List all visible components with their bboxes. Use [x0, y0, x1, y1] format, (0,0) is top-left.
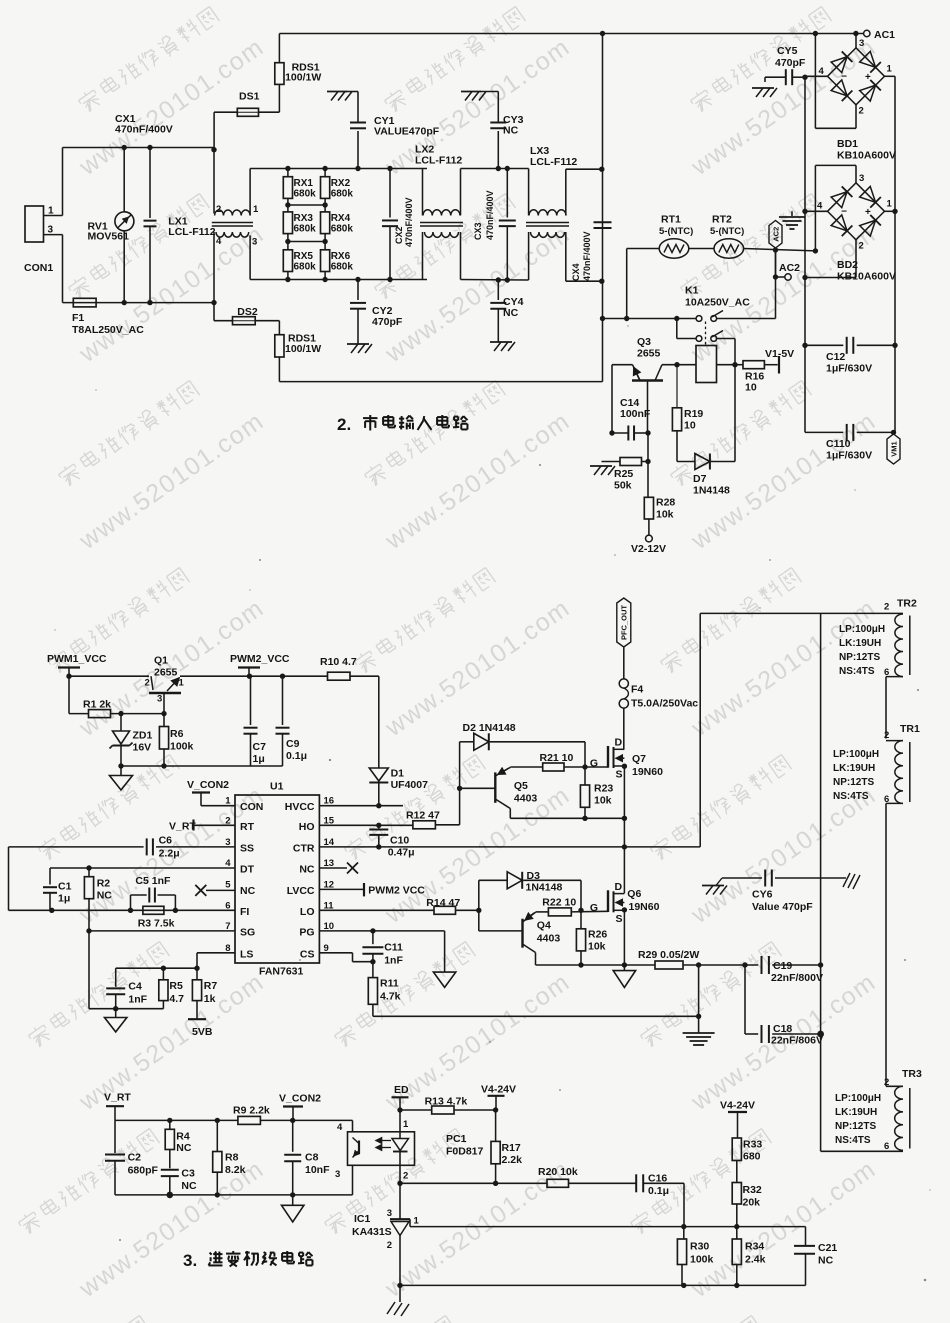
svg-text:PC1: PC1 — [446, 1133, 467, 1145]
svg-text:NC: NC — [240, 885, 256, 897]
svg-text:5: 5 — [225, 879, 231, 890]
svg-text:R1 2k: R1 2k — [83, 699, 111, 711]
svg-text:680pF: 680pF — [128, 1165, 159, 1177]
svg-text:680k: 680k — [294, 224, 317, 235]
svg-text:NC: NC — [299, 864, 315, 876]
svg-text:680k: 680k — [331, 189, 354, 200]
svg-text:V_CON2: V_CON2 — [187, 779, 229, 791]
svg-text:−: − — [841, 206, 847, 217]
svg-text:NC: NC — [503, 307, 519, 319]
svg-text:R19: R19 — [684, 408, 703, 420]
svg-text:ED: ED — [394, 1084, 409, 1096]
svg-text:3: 3 — [157, 694, 162, 705]
svg-text:AC1: AC1 — [874, 29, 895, 41]
svg-text:10k: 10k — [588, 941, 606, 953]
svg-text:R2: R2 — [97, 878, 111, 890]
svg-text:10k: 10k — [594, 795, 612, 807]
svg-text:VALUE470pF: VALUE470pF — [374, 126, 440, 138]
svg-text:Q3: Q3 — [637, 336, 651, 348]
svg-text:100k: 100k — [690, 1254, 714, 1266]
svg-text:470pF: 470pF — [775, 57, 806, 69]
svg-text:LVCC: LVCC — [287, 885, 315, 897]
svg-text:CX2: CX2 — [394, 226, 404, 244]
svg-text:RX2: RX2 — [331, 178, 351, 189]
svg-text:470nF/400V: 470nF/400V — [485, 190, 495, 240]
svg-text:BD2: BD2 — [837, 259, 858, 271]
svg-text:+: + — [865, 72, 871, 83]
svg-text:R4: R4 — [176, 1131, 190, 1143]
svg-text:CTR: CTR — [293, 842, 315, 854]
svg-text:470pF: 470pF — [372, 316, 403, 328]
svg-text:V4-24V: V4-24V — [720, 1100, 755, 1112]
svg-text:NS:4TS: NS:4TS — [835, 1135, 871, 1146]
svg-text:NS:4TS: NS:4TS — [839, 666, 875, 677]
svg-text:CY6: CY6 — [752, 889, 773, 901]
svg-text:50k: 50k — [614, 480, 632, 492]
svg-text:HO: HO — [299, 821, 315, 833]
svg-text:R6: R6 — [170, 728, 184, 740]
svg-text:R28: R28 — [656, 497, 675, 509]
svg-text:D1: D1 — [391, 768, 405, 780]
svg-text:C10: C10 — [390, 835, 409, 847]
svg-text:R26: R26 — [588, 929, 607, 941]
svg-text:D7: D7 — [693, 473, 707, 485]
svg-text:4.7k: 4.7k — [380, 991, 401, 1003]
svg-text:R34: R34 — [745, 1241, 764, 1253]
svg-text:C19: C19 — [773, 960, 792, 972]
svg-text:RX5: RX5 — [294, 251, 314, 262]
svg-text:10: 10 — [745, 382, 757, 394]
svg-text:C12: C12 — [826, 351, 845, 363]
svg-text:TR1: TR1 — [900, 723, 920, 735]
svg-text:NC: NC — [181, 1180, 197, 1192]
svg-text:2655: 2655 — [637, 348, 661, 360]
svg-text:R32: R32 — [743, 1184, 762, 1196]
svg-text:−: − — [841, 71, 847, 82]
svg-text:R20 10k: R20 10k — [538, 1166, 578, 1178]
svg-text:K1: K1 — [685, 285, 699, 297]
svg-text:S: S — [616, 913, 623, 925]
svg-text:C2: C2 — [128, 1152, 142, 1164]
svg-text:S: S — [616, 769, 623, 781]
svg-text:4403: 4403 — [514, 793, 538, 805]
svg-text:6: 6 — [884, 1141, 889, 1152]
svg-text:NP:12TS: NP:12TS — [835, 1121, 876, 1132]
svg-text:+: + — [865, 207, 871, 218]
svg-text:LK:19UH: LK:19UH — [839, 638, 881, 649]
svg-text:TR3: TR3 — [902, 1068, 922, 1080]
svg-text:4: 4 — [817, 201, 823, 212]
svg-text:4: 4 — [216, 236, 222, 247]
svg-text:PFC_OUT: PFC_OUT — [620, 605, 629, 640]
svg-text:VM1: VM1 — [889, 441, 898, 456]
svg-text:FI: FI — [240, 906, 249, 918]
svg-text:2: 2 — [884, 1077, 889, 1088]
svg-text:NC: NC — [176, 1142, 192, 1154]
svg-text:4403: 4403 — [537, 933, 561, 945]
svg-text:R29 0.05/2W: R29 0.05/2W — [638, 949, 699, 961]
svg-text:CX4: CX4 — [571, 263, 581, 281]
svg-text:DS1: DS1 — [239, 91, 260, 103]
svg-text:LO: LO — [300, 906, 315, 918]
svg-text:1μ: 1μ — [58, 893, 70, 905]
svg-text:MOV561: MOV561 — [88, 231, 130, 243]
svg-text:Q6: Q6 — [627, 888, 641, 900]
svg-text:R25: R25 — [614, 468, 633, 480]
svg-text:C8: C8 — [305, 1152, 319, 1164]
svg-text:4: 4 — [337, 1122, 343, 1133]
svg-text:TR2: TR2 — [897, 598, 917, 610]
svg-text:C18: C18 — [773, 1023, 792, 1035]
svg-text:680k: 680k — [294, 262, 317, 273]
svg-text:V_RT: V_RT — [104, 1092, 131, 1104]
svg-text:KB10A600V: KB10A600V — [837, 150, 896, 162]
svg-text:DS2: DS2 — [237, 306, 258, 318]
svg-text:F1: F1 — [72, 312, 84, 324]
svg-text:V2-12V: V2-12V — [631, 543, 666, 555]
svg-text:100/1W: 100/1W — [285, 72, 321, 84]
svg-text:G: G — [590, 902, 598, 914]
svg-text:1N4148: 1N4148 — [526, 882, 563, 894]
svg-text:8.2k: 8.2k — [225, 1164, 246, 1176]
svg-text:2: 2 — [859, 241, 864, 252]
svg-text:10k: 10k — [656, 509, 674, 521]
svg-text:T5.0A/250Vac: T5.0A/250Vac — [631, 698, 698, 710]
svg-text:2: 2 — [859, 106, 864, 117]
svg-text:Q1: Q1 — [154, 655, 168, 667]
svg-text:R14 47: R14 47 — [426, 897, 460, 909]
svg-text:LCL-F112: LCL-F112 — [168, 226, 215, 238]
svg-text:470nF/400V: 470nF/400V — [582, 231, 592, 281]
svg-text:C11: C11 — [384, 942, 403, 954]
svg-text:BD1: BD1 — [837, 138, 858, 150]
svg-text:5-(NTC): 5-(NTC) — [710, 226, 744, 237]
svg-text:1: 1 — [414, 1216, 420, 1227]
svg-text:1μ: 1μ — [253, 753, 265, 765]
svg-text:DT: DT — [240, 864, 255, 876]
svg-text:KA431S: KA431S — [352, 1226, 392, 1238]
svg-text:6: 6 — [884, 667, 889, 678]
svg-text:C21: C21 — [818, 1242, 837, 1254]
svg-text:2.4k: 2.4k — [745, 1254, 766, 1266]
svg-text:LK:19UH: LK:19UH — [833, 763, 875, 774]
svg-text:PWM2_VCC: PWM2_VCC — [230, 653, 290, 665]
svg-text:R33: R33 — [743, 1139, 762, 1151]
svg-text:R30: R30 — [690, 1241, 709, 1253]
svg-text:C110: C110 — [826, 438, 851, 450]
svg-text:V_CON2: V_CON2 — [279, 1093, 321, 1105]
svg-text:6: 6 — [884, 794, 889, 805]
svg-text:LK:19UH: LK:19UH — [835, 1107, 877, 1118]
svg-text:20k: 20k — [743, 1197, 761, 1209]
svg-text:R7: R7 — [204, 980, 218, 992]
svg-text:CS: CS — [300, 948, 315, 960]
svg-text:NC: NC — [818, 1255, 834, 1267]
svg-text:PWM1_VCC: PWM1_VCC — [47, 653, 107, 665]
svg-text:KB10A600V: KB10A600V — [837, 271, 896, 283]
svg-text:RT1: RT1 — [661, 214, 681, 226]
svg-text:3.: 3. — [183, 1251, 197, 1270]
svg-text:LS: LS — [240, 948, 253, 960]
svg-text:5VB: 5VB — [192, 1026, 213, 1038]
svg-text:T8AL250V_AC: T8AL250V_AC — [72, 324, 144, 336]
svg-text:2.2k: 2.2k — [502, 1154, 523, 1166]
svg-text:19N60: 19N60 — [629, 901, 660, 913]
svg-text:C4: C4 — [128, 981, 142, 993]
svg-text:ZD1: ZD1 — [133, 730, 153, 742]
svg-text:D: D — [615, 881, 623, 893]
svg-text:C7: C7 — [253, 741, 267, 753]
svg-text:Q5: Q5 — [514, 780, 528, 792]
svg-text:680k: 680k — [294, 189, 317, 200]
svg-text:U1: U1 — [270, 781, 284, 793]
svg-text:R11: R11 — [380, 978, 399, 990]
svg-text:SG: SG — [240, 926, 255, 938]
svg-text:Value 470pF: Value 470pF — [752, 901, 813, 913]
svg-text:C16: C16 — [648, 1173, 667, 1185]
svg-text:CY5: CY5 — [777, 45, 798, 57]
svg-text:3: 3 — [387, 1208, 392, 1219]
svg-text:2.2μ: 2.2μ — [159, 848, 180, 860]
svg-text:LCL-F112: LCL-F112 — [530, 156, 577, 168]
svg-text:1k: 1k — [204, 993, 216, 1005]
svg-text:2655: 2655 — [154, 667, 178, 679]
svg-text:1μF/630V: 1μF/630V — [826, 450, 872, 462]
svg-text:100/1W: 100/1W — [285, 343, 321, 355]
svg-text:1μF/630V: 1μF/630V — [826, 363, 872, 375]
svg-text:1N4148: 1N4148 — [693, 485, 730, 497]
svg-text:0.47μ: 0.47μ — [388, 847, 415, 859]
svg-text:NC: NC — [97, 890, 113, 902]
svg-text:C5 1nF: C5 1nF — [135, 875, 171, 887]
svg-text:10A250V_AC: 10A250V_AC — [685, 297, 750, 309]
svg-text:R22 10: R22 10 — [542, 897, 576, 909]
svg-text:2.: 2. — [337, 415, 351, 434]
svg-text:NP:12TS: NP:12TS — [833, 777, 874, 788]
svg-text:R23: R23 — [594, 783, 613, 795]
svg-text:UF4007: UF4007 — [391, 779, 429, 791]
svg-text:D3: D3 — [527, 870, 541, 882]
svg-text:D: D — [615, 737, 623, 749]
svg-text:HVCC: HVCC — [285, 801, 315, 813]
svg-text:1nF: 1nF — [128, 994, 147, 1006]
svg-text:V_RT: V_RT — [169, 821, 196, 833]
svg-text:C9: C9 — [286, 738, 300, 750]
svg-text:1nF: 1nF — [384, 955, 403, 967]
svg-text:RX6: RX6 — [331, 251, 351, 262]
svg-text:3: 3 — [335, 1169, 340, 1180]
svg-text:0.1μ: 0.1μ — [648, 1185, 669, 1197]
svg-text:R13 4.7k: R13 4.7k — [425, 1096, 468, 1108]
svg-text:NS:4TS: NS:4TS — [833, 791, 869, 802]
svg-text:R5: R5 — [169, 980, 183, 992]
svg-text:CX3: CX3 — [473, 222, 483, 240]
svg-text:RX1: RX1 — [294, 178, 314, 189]
svg-text:SS: SS — [240, 842, 254, 854]
svg-text:4.7: 4.7 — [169, 993, 184, 1005]
svg-text:D2 1N4148: D2 1N4148 — [463, 722, 516, 734]
svg-text:C3: C3 — [181, 1168, 195, 1180]
svg-text:3: 3 — [859, 38, 864, 49]
svg-text:5-(NTC): 5-(NTC) — [659, 226, 693, 237]
svg-text:LP:100μH: LP:100μH — [833, 749, 879, 760]
svg-text:470nF/400V: 470nF/400V — [404, 197, 414, 247]
svg-text:22nF/806V: 22nF/806V — [771, 1035, 823, 1047]
svg-text:2: 2 — [884, 730, 889, 741]
svg-text:1: 1 — [887, 199, 893, 210]
svg-text:V1-5V: V1-5V — [765, 348, 794, 360]
svg-text:NP:12TS: NP:12TS — [839, 652, 880, 663]
svg-text:3: 3 — [252, 237, 257, 248]
svg-text:RX3: RX3 — [294, 213, 314, 224]
svg-text:0.1μ: 0.1μ — [286, 750, 307, 762]
svg-text:680: 680 — [743, 1151, 761, 1163]
svg-text:NC: NC — [503, 125, 519, 137]
svg-text:2: 2 — [387, 1240, 392, 1251]
svg-text:RT2: RT2 — [712, 214, 732, 226]
svg-text:10nF: 10nF — [305, 1164, 330, 1176]
svg-text:R3 7.5k: R3 7.5k — [138, 918, 175, 930]
svg-text:100k: 100k — [170, 741, 194, 753]
svg-text:F4: F4 — [631, 684, 643, 696]
svg-text:CON: CON — [240, 801, 263, 813]
svg-text:2: 2 — [403, 1171, 408, 1182]
svg-text:R21 10: R21 10 — [540, 752, 574, 764]
svg-text:19N60: 19N60 — [632, 766, 663, 778]
svg-text:16V: 16V — [133, 742, 152, 754]
svg-text:R10 4.7: R10 4.7 — [320, 656, 357, 668]
svg-text:RX4: RX4 — [331, 213, 351, 224]
svg-text:LP:100μH: LP:100μH — [839, 624, 885, 635]
svg-text:100nF: 100nF — [620, 408, 651, 420]
svg-text:F0D817: F0D817 — [446, 1146, 484, 1158]
svg-text:680k: 680k — [331, 262, 354, 273]
svg-text:R8: R8 — [225, 1152, 239, 1164]
svg-text:LCL-F112: LCL-F112 — [415, 155, 462, 167]
svg-text:CON1: CON1 — [24, 262, 53, 274]
svg-text:22nF/800V: 22nF/800V — [771, 972, 823, 984]
svg-text:680k: 680k — [331, 224, 354, 235]
svg-text:IC1: IC1 — [354, 1213, 371, 1225]
svg-text:1: 1 — [403, 1119, 409, 1130]
svg-text:2: 2 — [216, 204, 221, 215]
svg-text:R17: R17 — [502, 1142, 521, 1154]
svg-text:Q7: Q7 — [632, 753, 646, 765]
svg-text:2: 2 — [884, 602, 889, 613]
svg-text:R12 47: R12 47 — [406, 810, 440, 822]
svg-text:R9 2.2k: R9 2.2k — [233, 1105, 270, 1117]
svg-text:Q4: Q4 — [537, 920, 551, 932]
svg-text:G: G — [590, 758, 598, 770]
svg-text:AC2: AC2 — [771, 227, 780, 242]
svg-text:1: 1 — [887, 64, 893, 75]
svg-text:RT: RT — [240, 821, 255, 833]
svg-text:V4-24V: V4-24V — [481, 1084, 516, 1096]
svg-text:1: 1 — [253, 204, 259, 215]
svg-text:2: 2 — [145, 678, 150, 689]
svg-text:4: 4 — [819, 66, 825, 77]
svg-text:C6: C6 — [159, 835, 173, 847]
svg-text:PG: PG — [299, 926, 314, 938]
svg-text:C1: C1 — [58, 881, 72, 893]
svg-text:PWM2 VCC: PWM2 VCC — [368, 885, 425, 897]
svg-text:AC2: AC2 — [779, 262, 800, 274]
svg-text:3: 3 — [859, 173, 864, 184]
svg-text:1: 1 — [179, 678, 185, 689]
svg-text:LP:100μH: LP:100μH — [835, 1093, 881, 1104]
svg-text:FAN7631: FAN7631 — [259, 966, 304, 978]
svg-text:470nF/400V: 470nF/400V — [115, 124, 173, 136]
svg-text:10: 10 — [684, 420, 696, 432]
